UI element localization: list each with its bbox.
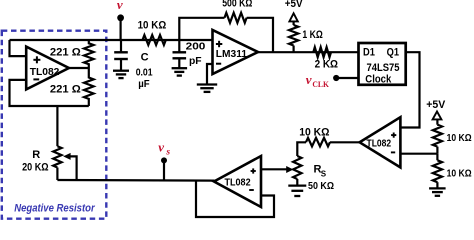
svg-text:500 KΩ: 500 KΩ (222, 0, 252, 10)
label Negative Resistor (14, 202, 95, 214)
resistor 2K (313, 47, 331, 57)
op-amp U1 TL082 body (26, 47, 69, 90)
C value uF (138, 78, 150, 90)
200pF value pF (189, 55, 202, 67)
svg-text:1 KΩ: 1 KΩ (302, 29, 323, 41)
U3 pin label Q1 (387, 47, 399, 59)
wire top rail (node v rail) (10, 39, 213, 41)
negative resistor dashed enclosure (2, 31, 107, 219)
op-amp U5 TL082 body (214, 156, 261, 207)
1K value label (302, 29, 323, 41)
svg-text:Clock: Clock (365, 74, 392, 86)
U5 minus pin marker (249, 189, 254, 191)
op-amp U4 TL082 body (360, 117, 401, 167)
C reference label (141, 51, 149, 63)
wire down to potentiometer R (56, 106, 58, 146)
10K divider upper label (447, 132, 472, 144)
R reference label (32, 149, 40, 161)
wire U4 output to 10K (330, 141, 360, 143)
resistor 10K divider upper (433, 119, 442, 153)
U3 label Clock (365, 74, 392, 86)
RS reference label (314, 164, 327, 179)
ground under RS (288, 186, 306, 196)
U2 minus pin marker (216, 63, 221, 65)
node v dot and stub (117, 14, 124, 40)
svg-text:CLK: CLK (312, 79, 329, 89)
svg-text:20 KΩ: 20 KΩ (22, 161, 49, 173)
wire U4 - input to divider node (400, 153, 437, 155)
U2 label LM311 (216, 48, 247, 60)
node vs label (158, 140, 170, 158)
latch U3 74LS75 box (359, 43, 406, 85)
U4 label TL082 (367, 139, 392, 150)
svg-text:200: 200 (186, 41, 206, 53)
resistor R1a 221 ohm (upper) (84, 40, 94, 68)
potentiometer RS body (293, 156, 301, 179)
U1 value label TL082 (30, 66, 60, 78)
svg-text:2 KΩ: 2 KΩ (315, 59, 339, 71)
svg-text:10 KΩ: 10 KΩ (299, 127, 329, 139)
wire pot R bottom to long rail (56, 168, 58, 181)
wire U2 - input to ground (207, 64, 213, 84)
node vCLK dot and wire (333, 75, 358, 81)
svg-text:10 KΩ: 10 KΩ (447, 168, 472, 180)
10K top value label (138, 19, 167, 31)
node v label (117, 0, 123, 12)
svg-text:+5V: +5V (285, 0, 303, 10)
U4 minus pin marker (391, 151, 395, 153)
svg-text:221 Ω: 221 Ω (50, 83, 81, 95)
U3 label 74LS75 (367, 62, 400, 74)
supply +5V (pullup) label (285, 0, 303, 10)
svg-text:74LS75: 74LS75 (367, 62, 400, 74)
svg-text:s: s (165, 148, 170, 158)
resistor 10K (buffer to pot) (306, 138, 330, 147)
svg-text:TL082: TL082 (225, 178, 251, 189)
node vCLK label (306, 72, 329, 89)
C value 0.01 (136, 66, 153, 78)
node vs dot and stub (161, 157, 167, 180)
capacitor 200pF body (173, 40, 187, 68)
resistor 1K pullup (289, 21, 298, 52)
resistor 10K (v to comparator) (143, 35, 166, 45)
wire feedback right to output (247, 18, 273, 52)
wire U2 output rail (258, 51, 359, 53)
resistor R1b 221 ohm (lower) (84, 68, 94, 106)
U1 plus pin marker (33, 56, 40, 63)
svg-text:10 KΩ: 10 KΩ (138, 19, 167, 31)
ground under C (113, 71, 129, 78)
U3 pin label D1 (363, 47, 375, 59)
R1a value label 221 ohm (50, 47, 81, 59)
supply +5V triangle symbol (289, 13, 297, 21)
wire feedback left vertical (179, 18, 224, 40)
svg-text:50 KΩ: 50 KΩ (308, 180, 334, 192)
svg-text:D1: D1 (363, 47, 375, 59)
divider +5V triangle symbol (433, 112, 442, 120)
svg-text:v: v (117, 0, 123, 12)
svg-text:pF: pF (189, 55, 202, 67)
svg-text:TL082: TL082 (30, 66, 60, 78)
wire U5 feedback loop (196, 180, 274, 217)
svg-text:221 Ω: 221 Ω (50, 47, 81, 59)
capacitor C body (114, 40, 128, 70)
R1b value label 221 ohm (50, 83, 81, 95)
U4 plus pin marker (391, 133, 396, 138)
svg-text:TL082: TL082 (367, 139, 392, 150)
pot R wiper arrow (63, 153, 76, 180)
10K mid value label (299, 127, 329, 139)
wire U1 - input loop (10, 80, 89, 106)
svg-text:S: S (321, 169, 327, 178)
svg-text:v: v (306, 72, 312, 87)
svg-text:v: v (158, 140, 164, 155)
comparator U2 LM311 body (213, 30, 259, 74)
wire Q1 output to buffer + input (400, 52, 419, 127)
svg-text:+5V: +5V (426, 99, 446, 111)
svg-text:Negative Resistor: Negative Resistor (14, 202, 95, 214)
supply +5V (divider) label (426, 99, 446, 111)
potentiometer R 20K body (53, 146, 61, 167)
svg-text:µF: µF (138, 78, 150, 90)
svg-text:10 KΩ: 10 KΩ (447, 132, 472, 144)
U1 minus pin marker (33, 78, 39, 80)
ground under divider (429, 188, 446, 195)
RS value label 50K (308, 180, 334, 192)
200pF value 200 (186, 41, 206, 53)
ground at U2 - input (197, 85, 217, 92)
wire U5 + input to pot RS wiper with arrow (261, 166, 293, 173)
wire U1 + input feedback loop (10, 40, 27, 56)
wire U1 output to resistor node (69, 67, 89, 69)
ground under 200pF (172, 68, 188, 75)
wire pot RS to ground (296, 179, 298, 185)
500K value label (222, 0, 252, 10)
svg-text:LM311: LM311 (216, 48, 247, 60)
U5 plus pin marker (251, 168, 256, 173)
svg-text:C: C (141, 51, 149, 63)
10K divider lower label (447, 168, 472, 180)
2K value label (315, 59, 339, 71)
U5 label TL082 (225, 178, 251, 189)
svg-text:R: R (32, 149, 40, 161)
U2 plus pin marker (216, 41, 222, 47)
resistor 500K feedback (225, 13, 247, 23)
wire long output rail to negative resistor (57, 179, 214, 182)
svg-text:Q1: Q1 (387, 47, 399, 59)
wire 10K to pot RS top (297, 142, 306, 156)
resistor 10K divider lower (433, 154, 442, 188)
R value label 20 K (22, 161, 49, 173)
svg-text:0.01: 0.01 (136, 66, 153, 78)
